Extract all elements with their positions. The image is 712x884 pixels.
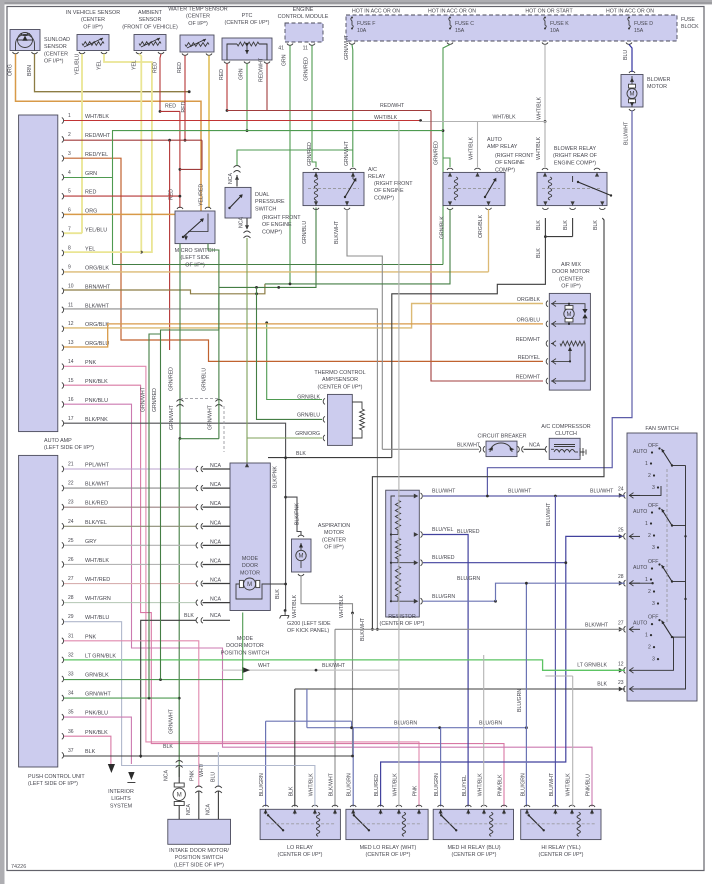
connector resistor pin arrow y601.2 <box>414 599 419 604</box>
connector micro switch top right pin <box>205 207 211 209</box>
svg-text:NCA: NCA <box>529 443 540 449</box>
label wire BLK/WHT ac <box>334 220 340 244</box>
svg-text:GRN: GRN <box>85 171 97 177</box>
junction BLU/GRN fan drop junction <box>525 582 528 585</box>
wire pin 25 wire to NCA <box>64 544 197 546</box>
connector MED LO RELAY pin connector WHT/BLK <box>396 805 402 807</box>
junction micro GRN junction <box>179 437 182 440</box>
auto amp relay pin lines <box>450 172 489 205</box>
svg-text:26: 26 <box>68 557 74 563</box>
connector MED HI RELAY pin connector WHT/BLK <box>481 805 487 807</box>
connector push control pin 22 <box>62 485 64 491</box>
ambient thermistor <box>139 42 161 46</box>
wire GRN/ORG wire <box>247 437 322 439</box>
label pin 10 wire name BRN/WHT <box>85 284 111 290</box>
connector push control pin 35 <box>62 714 64 720</box>
wire BLK second join <box>545 236 572 238</box>
component IN VEHICLE SENSOR <box>77 35 109 51</box>
connector LO RELAY pin arrow BLU/GRN <box>264 809 268 813</box>
label FUSE D 15A label <box>634 21 653 34</box>
wire BLK thermo horizontal <box>268 457 392 459</box>
svg-text:PNK: PNK <box>85 360 96 366</box>
label pin 31 number <box>68 633 74 639</box>
label MED LO RELAY label <box>360 845 417 858</box>
fuse C <box>449 17 452 30</box>
svg-text:27: 27 <box>618 620 624 626</box>
connector MED HI RELAY pin arrow BLU/YEL <box>466 809 470 813</box>
label pin 12 number <box>68 321 74 327</box>
wire GRN/BLU from AC relay <box>219 208 316 288</box>
label 74226 <box>11 864 26 870</box>
svg-text:OF I/P*): OF I/P*) <box>188 21 208 27</box>
svg-text:BLK/WHT: BLK/WHT <box>457 443 481 449</box>
svg-text:(LEFT SIDE OF I/P*): (LEFT SIDE OF I/P*) <box>28 781 78 787</box>
connector HI RELAY pin arrow BLU/WHT <box>553 809 557 813</box>
label ECM pin 11 <box>303 46 308 52</box>
label pin 8 wire name YEL <box>85 247 95 253</box>
svg-text:10A: 10A <box>357 28 367 34</box>
svg-text:PNK/BLU: PNK/BLU <box>586 774 592 796</box>
svg-text:YEL/BLU: YEL/BLU <box>75 53 81 75</box>
label pin 5 number <box>68 189 71 195</box>
connector LO RELAY pin connector BLK <box>292 805 298 807</box>
fan switch section 2 <box>633 503 686 551</box>
fan pin stub 28 <box>629 582 640 584</box>
label wire BLU/GRN rot <box>517 689 523 712</box>
svg-text:7: 7 <box>68 227 71 233</box>
connector NCA connector pin 21 <box>196 466 203 472</box>
svg-text:NCA: NCA <box>210 613 221 619</box>
svg-text:WHT/BLK: WHT/BLK <box>392 773 398 797</box>
svg-text:LIGHTS: LIGHTS <box>111 796 131 802</box>
wire pin 29 WHT/BLU wire <box>64 622 315 807</box>
wire BLU/WHT resistor to fan <box>423 495 625 497</box>
svg-text:AUTO: AUTO <box>633 621 647 627</box>
svg-text:INTAKE DOOR MOTOR/: INTAKE DOOR MOTOR/ <box>169 848 229 854</box>
label MICRO SWITCH label <box>175 248 216 268</box>
svg-text:YEL: YEL <box>97 60 103 70</box>
svg-text:RED/YEL: RED/YEL <box>85 152 108 158</box>
MED HI RELAY switch arm <box>440 814 457 831</box>
connector fuse C out <box>447 43 453 45</box>
label wire RED a <box>153 62 159 73</box>
svg-text:HOT IN ACC OR ON: HOT IN ACC OR ON <box>606 9 654 15</box>
connector MED HI RELAY pin arrow BLU/GRN <box>439 809 443 813</box>
junction BLU/GRN bus junction a <box>350 726 353 729</box>
label fan pin number 24 <box>618 486 624 492</box>
component FAN SWITCH <box>627 433 697 701</box>
wire pin5 RED line <box>64 195 180 197</box>
component ASPIRATION MOTOR <box>292 539 312 572</box>
wire BLU/GRN from fan down <box>525 583 527 806</box>
svg-text:23: 23 <box>618 680 624 686</box>
wire BLK/WHT to LO relay <box>334 629 336 806</box>
svg-text:1: 1 <box>645 633 648 639</box>
label air mix input label RED/WHT <box>516 375 541 381</box>
component DUAL PRESSURE SWITCH <box>225 187 251 218</box>
connector water temp pin 1 <box>182 54 188 56</box>
connector fuse D out <box>626 43 632 45</box>
label pin 25 number <box>68 538 74 544</box>
label wire BLK br1 <box>536 220 542 230</box>
wire RED/WHT corner up <box>180 140 202 169</box>
connector auto amp relay top left connector <box>447 168 453 170</box>
wire GRN/BLU below micro switch <box>208 244 219 288</box>
label wire BLU <box>623 50 629 60</box>
connector circuit breaker left connector <box>479 446 485 452</box>
label wire RED d <box>219 69 225 80</box>
svg-text:BLU/YEL: BLU/YEL <box>462 775 468 796</box>
label pin 32 number <box>68 652 74 658</box>
connector MED LO RELAY pin arrow BLU/GRN <box>351 809 355 813</box>
interior lights arrow 1 <box>108 764 115 773</box>
svg-text:41: 41 <box>278 46 284 52</box>
svg-text:OF I/P*): OF I/P*) <box>561 284 581 290</box>
wire GRN riser <box>113 131 444 265</box>
svg-text:OF I/P*): OF I/P*) <box>324 545 344 551</box>
component AIR MIX DOOR MOTOR <box>549 293 590 390</box>
LO RELAY coil <box>316 812 319 836</box>
label wire GRN/WHT bottom rot <box>169 708 175 734</box>
svg-text:NCA: NCA <box>164 770 170 781</box>
svg-text:22: 22 <box>68 481 74 487</box>
wire pin8 YEL line <box>64 251 141 253</box>
label wire GRN/WHT rot mid <box>169 404 175 430</box>
label air mix input label RED/WHT <box>516 337 541 343</box>
svg-text:CONTROL MODULE: CONTROL MODULE <box>278 14 329 20</box>
wire pin 28 NCA continuation <box>203 602 231 604</box>
connector AC relay bottom right arrow <box>345 201 349 205</box>
svg-text:FUSE D: FUSE D <box>634 21 653 27</box>
label pin 21 number <box>68 462 74 468</box>
connector PTC pin 3 <box>264 62 270 64</box>
label wire BLU/WHT r3 <box>590 489 614 495</box>
label THERMO CONTROL AMP label <box>314 370 365 390</box>
component RESISTOR <box>386 490 420 617</box>
svg-text:36: 36 <box>68 729 74 735</box>
connector auto amp relay top left arrow <box>448 172 452 176</box>
svg-text:LO RELAY: LO RELAY <box>287 845 313 851</box>
MED HI RELAY pin stub WHT/BLK <box>483 809 485 814</box>
connector thermo input connector GRN/BLU <box>323 416 325 422</box>
component AC COMPRESSOR CLUTCH <box>549 438 580 459</box>
connector NCA connector pin 27 <box>196 581 203 587</box>
svg-text:29: 29 <box>68 614 74 620</box>
wire GRN/RED to auto amp relay <box>443 158 450 167</box>
wire BLU/GRN bus link <box>351 721 353 728</box>
svg-text:3: 3 <box>652 545 655 551</box>
connector auto amp pin 12 <box>62 326 64 332</box>
wire pin13 ORG/BLU line <box>64 324 543 347</box>
svg-text:COMP*): COMP*) <box>262 229 282 235</box>
svg-text:(CENTER: (CENTER <box>81 17 105 23</box>
MED LO RELAY coil <box>402 812 405 836</box>
svg-text:M: M <box>247 582 252 588</box>
label pin 7 wire name YEL/BLU <box>85 228 107 234</box>
wire BLU/GRN bus lower <box>307 727 527 729</box>
svg-text:BLK/PNK: BLK/PNK <box>273 466 279 488</box>
junction GRN/BLU junction <box>255 286 258 289</box>
label HOT IN ACC OR ON 3 <box>606 9 654 15</box>
label INTERIOR LIGHTS SYSTEM label <box>108 789 134 809</box>
wire pin9 ORG/BLK line <box>64 271 489 273</box>
MED LO RELAY pin stub BLU/GRN <box>352 809 354 814</box>
component MED LO RELAY <box>346 809 428 839</box>
svg-text:RELAY: RELAY <box>368 174 386 180</box>
svg-text:(CENTER: (CENTER <box>44 51 68 57</box>
component ENGINE CONTROL MODULE <box>285 23 323 42</box>
svg-text:2: 2 <box>648 473 651 479</box>
label wire BLU/YEL r <box>432 527 453 533</box>
label pin 13 wire name ORG/BLU <box>85 341 109 347</box>
svg-text:BLU/GRN: BLU/GRN <box>434 773 440 796</box>
svg-text:SUNLOAD: SUNLOAD <box>44 37 70 43</box>
junction BLK junction blower <box>544 235 547 238</box>
wire GRN/WHT from fuse F <box>351 45 354 168</box>
intake M stubs <box>178 767 180 819</box>
label wire ORG/BLK aar <box>478 214 484 238</box>
MED LO RELAY switch arm <box>353 814 370 831</box>
wire pin35 PNK/BLU wire <box>64 717 131 764</box>
connector push control pin 23 <box>62 504 64 510</box>
connector air mix input arrow ORG/BLU <box>552 321 556 327</box>
connector BLK NCA connector <box>196 618 203 624</box>
svg-text:(CENTER: (CENTER <box>186 14 210 20</box>
svg-text:6: 6 <box>68 208 71 214</box>
fan pin 28 stub extension <box>629 582 654 584</box>
svg-text:11: 11 <box>68 302 73 308</box>
connector HI RELAY pin arrow PNK/BLU <box>590 809 594 813</box>
connector air mix input connector ORG/BLK <box>546 301 548 307</box>
component MODE DOOR MOTOR <box>230 463 270 611</box>
connector push control pin 37 <box>62 752 64 758</box>
label HI RELAY wire label WHT/BLK <box>566 773 572 797</box>
wire pin 23 wire to NCA <box>64 506 197 508</box>
svg-text:WHT/: WHT/ <box>199 763 205 777</box>
label wire BLU/RED f <box>457 529 480 535</box>
svg-text:BLK/WHT: BLK/WHT <box>329 772 335 796</box>
label pin 4 wire name GRN <box>85 171 97 177</box>
wire pin11 BLK/WHT line <box>64 309 377 629</box>
wire pin4 GRN line <box>64 177 113 179</box>
water temp thermistor <box>185 43 209 47</box>
svg-text:DUAL: DUAL <box>255 192 269 198</box>
label wire GRN/RED acl <box>307 142 313 166</box>
svg-text:GRN/RED: GRN/RED <box>168 367 174 391</box>
connector push control pin 31 <box>62 638 64 644</box>
connector fan pin wedge 28 <box>619 581 624 586</box>
wire BLU/GRN bus left tail <box>306 689 308 728</box>
svg-text:(RIGHT FRONT: (RIGHT FRONT <box>374 181 413 187</box>
resistor pin stubs <box>398 496 414 601</box>
label wire WHT/BLK a <box>537 96 543 120</box>
connector micro right lower connector <box>215 400 222 407</box>
connector in-vehicle pin 1 <box>79 52 85 54</box>
label LO RELAY wire label BLU/GRN <box>259 773 265 796</box>
svg-text:RED: RED <box>153 62 159 73</box>
label pin 25 wire name GRY <box>85 539 97 545</box>
label pin 7 number <box>68 227 71 233</box>
label MODE DOOR MOTOR label <box>240 556 260 576</box>
label NCA label pin 26 <box>210 558 221 564</box>
connector micro left lower connector <box>177 400 184 407</box>
wire GRN link at 438 <box>180 438 219 440</box>
label NCA label pin 25 <box>210 539 221 545</box>
wire BLK second from blower relay <box>572 218 574 237</box>
svg-text:2: 2 <box>648 645 651 651</box>
wire pin 26 wire to NCA <box>64 563 197 565</box>
air mix motor M <box>564 309 574 319</box>
label pin 11 wire name BLK/WHT <box>85 303 110 309</box>
label pin 2 number <box>68 132 71 138</box>
label HI RELAY label <box>539 845 584 858</box>
air mix motor internal <box>553 303 588 325</box>
svg-text:WHT/BLK: WHT/BLK <box>566 773 572 797</box>
wire WHT/BLK below aspiration <box>301 576 353 614</box>
connector push control pin 28 <box>62 600 64 606</box>
connector auto amp relay bottom right connector <box>486 208 492 210</box>
connector auto amp pin 7 <box>62 231 64 237</box>
svg-text:OFF: OFF <box>648 559 658 565</box>
svg-text:RED/WHT: RED/WHT <box>380 103 405 109</box>
label HI RELAY wire label BLU/WHT <box>549 772 555 796</box>
label pin 28 wire name WHT/GRN <box>85 596 111 602</box>
label wire BLK 37b <box>163 744 173 750</box>
svg-text:(CENTER: (CENTER <box>559 276 583 282</box>
label NCA label cb <box>529 443 540 449</box>
wire WHT/BLK link b <box>545 675 572 677</box>
wire AC relay dashed <box>308 188 359 190</box>
svg-text:DOOR MOTOR: DOOR MOTOR <box>552 269 590 275</box>
wire RED/WHT upper horizontal <box>227 110 431 112</box>
svg-text:FUSE: FUSE <box>681 17 695 23</box>
svg-text:RED/WHT: RED/WHT <box>516 375 541 381</box>
svg-text:3: 3 <box>652 657 655 663</box>
wire BLK/WHT from aspiration junction down <box>352 613 354 757</box>
label wire BLK/WHT cb <box>457 443 481 449</box>
junction BLK ground junction <box>284 456 287 459</box>
LO RELAY pin stub WHT/BLK <box>314 809 316 814</box>
wire GRN/WHT long vertical <box>178 439 181 778</box>
label pin 16 number <box>68 397 74 403</box>
LO RELAY pin stub BLK <box>294 809 296 814</box>
svg-text:SENSOR: SENSOR <box>44 44 67 50</box>
wire GRN/BLK to thermo amp <box>267 323 322 400</box>
wire blower relay dashed <box>542 188 602 190</box>
connector auto amp pin 4 <box>62 174 64 180</box>
label NCA intake col1 <box>164 770 170 781</box>
wire pin 25 NCA continuation <box>203 544 231 546</box>
svg-text:M: M <box>630 92 635 98</box>
svg-text:THERMO CONTROL: THERMO CONTROL <box>314 370 365 376</box>
junction RED junction b <box>179 168 182 171</box>
label wire GRN/BLU micro <box>202 368 208 391</box>
connector sunload pin 1 <box>13 52 19 54</box>
connector dual pressure bottom connector <box>244 231 251 238</box>
wire auto amp relay dashed <box>448 188 500 190</box>
connector clutch left connector <box>545 446 547 452</box>
connector intake col1 connector top <box>176 761 183 768</box>
svg-text:OF KICK PANEL): OF KICK PANEL) <box>287 628 329 634</box>
wire WHT/BLK long vertical <box>398 122 400 807</box>
svg-text:27: 27 <box>68 576 74 582</box>
label MED HI RELAY label <box>447 845 500 858</box>
label fan pin number 27 <box>618 620 624 626</box>
wire RED jog <box>160 110 180 112</box>
wire WHT/BLK to auto amp relay <box>477 122 479 168</box>
label wire BLU/GRN bus2 <box>394 721 417 727</box>
connector MED LO RELAY pin arrow PNK <box>417 809 421 813</box>
wire NCA link wire <box>524 448 546 450</box>
label pin 9 wire name ORG/BLK <box>85 265 109 271</box>
connector fan switch pin 27 connector <box>624 626 626 632</box>
wire RED/WHT down middle <box>431 111 543 382</box>
label pin 6 number <box>68 208 71 214</box>
wire GRN/RED z-path <box>161 294 219 680</box>
label MED HI RELAY wire label BLU/YEL <box>462 775 468 796</box>
clutch right connector <box>580 448 586 456</box>
label CIRCUIT BREAKER label <box>477 434 526 440</box>
connector air mix input arrow RED/WHT <box>552 341 556 347</box>
svg-text:GRN: GRN <box>239 68 245 80</box>
svg-text:WHT/BLK: WHT/BLK <box>85 114 109 120</box>
wire pin7 YEL/BLU line <box>64 232 82 234</box>
label PNK intake label <box>190 770 196 781</box>
svg-text:AUTO: AUTO <box>633 509 647 515</box>
micro switch arm <box>182 218 204 238</box>
svg-text:BLU/YEL: BLU/YEL <box>432 527 453 533</box>
wire pin 24 NCA continuation <box>203 525 231 527</box>
connector auto amp pin 8 <box>62 250 64 256</box>
label LO RELAY label <box>278 845 323 858</box>
svg-text:PNK: PNK <box>413 785 419 796</box>
svg-text:(CENTER OF I/P*): (CENTER OF I/P*) <box>539 852 584 858</box>
MED LO RELAY pin stub WHT/BLK <box>398 809 400 814</box>
svg-text:25: 25 <box>68 538 74 544</box>
connector auto amp pin 3 <box>62 155 64 161</box>
ground G200 <box>280 609 290 618</box>
svg-text:BLK/WHT: BLK/WHT <box>85 482 110 488</box>
svg-text:PPL/WHT: PPL/WHT <box>85 463 110 469</box>
intake col2 black stub <box>198 791 200 819</box>
connector auto amp relay bottom left arrow <box>448 201 452 205</box>
label wire BLK/WHT 27 <box>585 623 609 629</box>
wire fan switch dashed bus <box>666 469 668 622</box>
connector fan pin wedge 27 <box>619 627 624 632</box>
svg-text:OF I/P*): OF I/P*) <box>83 24 103 30</box>
label NCA label dps bottom <box>239 217 245 228</box>
auto amp relay switch arm <box>484 178 497 198</box>
junction RED/WHT junction <box>226 109 229 112</box>
connector intake col2 connector <box>195 786 202 793</box>
label wire ORG <box>8 64 14 76</box>
wire pin 21 NCA continuation <box>203 468 231 470</box>
label thermo input label GRN/BLK <box>297 394 320 400</box>
svg-text:M: M <box>177 793 182 799</box>
wire BLK/WHT to circuit breaker <box>382 448 479 450</box>
svg-text:GRN/WHT: GRN/WHT <box>169 708 175 734</box>
scan edge top <box>0 0 712 5</box>
svg-text:FAN SWITCH: FAN SWITCH <box>645 426 678 432</box>
connector push control pin 33 <box>62 676 64 682</box>
svg-text:AUTO: AUTO <box>487 137 502 143</box>
wire BLU/WHT from blower motor <box>487 111 632 497</box>
junction GRN/BLU junction b <box>277 286 280 289</box>
connector AC relay bottom left connector <box>313 208 319 210</box>
svg-text:BLU/RED: BLU/RED <box>457 529 480 535</box>
wire BLU/GRN fan wire <box>496 583 626 601</box>
connector air mix input connector RED/WHT <box>546 341 548 347</box>
